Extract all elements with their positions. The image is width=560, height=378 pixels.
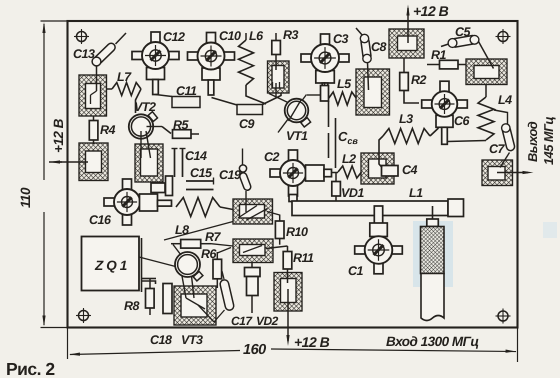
- coax braid: [421, 227, 445, 274]
- pad output / C7: [482, 160, 513, 186]
- pad for R1 / C5 / L4: [466, 59, 507, 85]
- inductor L8: [176, 198, 220, 217]
- wire lower pad diagonals: [243, 246, 262, 253]
- capacitor C5: [441, 44, 450, 47]
- wide pad upper (C19/R10): [233, 199, 273, 224]
- svg-text:C10: C10: [219, 29, 241, 43]
- pad for C4: [361, 153, 394, 184]
- resistor R6: [216, 252, 218, 260]
- corner hole top-left: [77, 32, 87, 42]
- resistor R7: [171, 243, 181, 245]
- svg-text:L3: L3: [399, 112, 413, 126]
- svg-text:160: 160: [243, 342, 266, 358]
- svg-text:110: 110: [18, 187, 33, 208]
- svg-text:L6: L6: [249, 29, 264, 43]
- trimmer capacitor C2: [289, 150, 298, 161]
- trimmer capacitor C12: [151, 32, 160, 43]
- svg-text:R2: R2: [411, 73, 427, 87]
- inductor L2: [338, 166, 362, 178]
- svg-text:С6: С6: [454, 114, 471, 128]
- svg-text:C8: C8: [371, 40, 387, 54]
- svg-text:ZQ1: ZQ1: [94, 258, 130, 273]
- capacitor C11 strip: [156, 95, 173, 97]
- svg-text:Рис. 2: Рис. 2: [6, 359, 55, 378]
- width dimension line 160: [67, 328, 69, 360]
- resistor R10: [267, 212, 280, 216]
- capacitor C8: [356, 28, 363, 36]
- corner hole top-right: [498, 32, 508, 42]
- pad for VT2 emitter: [135, 144, 163, 182]
- capacitor C18 plate: [163, 284, 172, 314]
- transistor VT3: [193, 272, 203, 281]
- inductor L6: [245, 33, 247, 40]
- inductor L7: [107, 88, 113, 90]
- svg-text:VD1: VD1: [341, 186, 364, 200]
- +12V top arrow: [407, 8, 409, 43]
- svg-text:C19: C19: [219, 168, 241, 182]
- wire ZQ1 to VT3: [139, 257, 176, 267]
- coax ferrule: [427, 219, 439, 227]
- svg-text:+12 В: +12 В: [413, 3, 449, 19]
- svg-text:L5: L5: [337, 77, 352, 91]
- svg-text:Вход 1300 МГц: Вход 1300 МГц: [386, 334, 479, 349]
- resistor R4: [93, 116, 95, 121]
- capacitor C15: [186, 180, 214, 182]
- diode VD1: [335, 173, 337, 183]
- transistor VT2: [148, 112, 157, 122]
- coax blue scan tint: [413, 221, 453, 287]
- svg-text:R4: R4: [100, 123, 116, 137]
- svg-text:C3: C3: [333, 32, 349, 46]
- svg-text:C1: C1: [348, 264, 364, 278]
- pad +12V left feed: [79, 143, 108, 181]
- svg-text:C4: C4: [402, 163, 418, 177]
- svg-text:R11: R11: [293, 251, 314, 265]
- svg-text:C2: C2: [264, 150, 280, 164]
- pad for C13 / L7: [79, 75, 107, 116]
- svg-text:C12: C12: [163, 30, 185, 44]
- pad for R3: [268, 61, 290, 93]
- svg-text:L2: L2: [342, 152, 356, 166]
- svg-text:C15: C15: [190, 166, 213, 180]
- svg-text:VD2: VD2: [256, 314, 279, 328]
- transistor VT1: [269, 94, 290, 104]
- svg-text:VT2: VT2: [134, 100, 156, 114]
- inductor L3: [383, 129, 430, 144]
- svg-text:VT3: VT3: [181, 333, 203, 347]
- svg-text:R6: R6: [201, 247, 218, 261]
- svg-text:R10: R10: [286, 225, 308, 239]
- svg-text:R5: R5: [173, 118, 190, 132]
- trimmer capacitor C6: [440, 81, 449, 92]
- C16 output lead: [140, 194, 158, 211]
- coupling capacitor Csv trace 1: [328, 101, 330, 127]
- svg-text:C14: C14: [185, 149, 207, 163]
- inductor L5: [329, 92, 357, 105]
- diode VD2: [251, 263, 253, 269]
- resistor R2: [403, 58, 405, 73]
- C15 lead: [166, 176, 173, 196]
- svg-text:C16: C16: [89, 213, 112, 227]
- output arrow 145 MHz: [497, 172, 528, 174]
- coupling capacitor Csv trace 2: [335, 118, 337, 168]
- trimmer capacitor C1: [374, 206, 382, 224]
- quartz crystal ZQ1: [82, 237, 140, 291]
- wire pad to R11: [266, 246, 288, 249]
- svg-text:+12 В: +12 В: [294, 334, 330, 350]
- svg-text:C11: C11: [176, 84, 197, 98]
- capacitor C19: [242, 149, 244, 166]
- pad for L5 / C8: [356, 69, 390, 115]
- C2 output lead: [306, 165, 325, 181]
- wire C19 pad diagonals: [238, 206, 257, 219]
- capacitor C14: [174, 149, 176, 178]
- inductor L4: [485, 85, 487, 98]
- pad +12V bottom feed: [274, 273, 302, 312]
- svg-text:C9: C9: [239, 117, 255, 131]
- wire L4 to C6 stem: [448, 141, 487, 142]
- svg-text:R1: R1: [431, 48, 447, 62]
- svg-text:C13: C13: [73, 47, 95, 61]
- wire to R7: [164, 222, 233, 241]
- trimmer capacitor C16: [123, 179, 132, 190]
- corner hole bottom-left: [79, 311, 89, 321]
- svg-text:C17: C17: [231, 314, 253, 328]
- svg-text:145 МГц: 145 МГц: [541, 117, 556, 165]
- svg-text:Выход: Выход: [525, 121, 540, 162]
- pcb board outline: [68, 21, 518, 328]
- svg-text:C18: C18: [150, 333, 172, 347]
- wide pad lower (R11): [233, 239, 273, 263]
- capacitor C17: [219, 279, 234, 311]
- pad for C18 / VT3: [174, 286, 216, 325]
- wire VT3 pad diagonals: [186, 298, 205, 309]
- svg-text:C7: C7: [489, 142, 506, 156]
- resistor R5: [173, 130, 192, 139]
- resistor R8: [149, 279, 151, 290]
- resistor R11: [287, 246, 289, 252]
- trimmer capacitor C3: [321, 34, 330, 45]
- resistor R1: [427, 64, 440, 66]
- capacitor C4 chip: [382, 166, 399, 177]
- svg-text:R7: R7: [205, 230, 222, 244]
- svg-text:L7: L7: [117, 70, 132, 84]
- svg-text:VT1: VT1: [286, 129, 308, 143]
- svg-text:+12 В: +12 В: [51, 118, 66, 153]
- microstrip L1: [289, 195, 297, 202]
- +12V left arrow: [60, 161, 88, 163]
- pad +12V top feed: [389, 29, 424, 58]
- capacitor C13: [116, 33, 127, 44]
- wire ZQ1 lead to C18: [142, 281, 156, 284]
- wire L7 to VT2: [136, 89, 142, 113]
- node junction box (C3/L5/Csv): [324, 82, 326, 86]
- capacitor C7: [494, 110, 508, 125]
- corner hole bottom-right: [498, 311, 508, 321]
- height dimension line 110: [41, 20, 68, 22]
- +12V bottom arrow: [287, 289, 289, 341]
- resistor R3: [275, 33, 277, 41]
- svg-text:L1: L1: [409, 186, 423, 200]
- trimmer capacitor C10: [207, 33, 216, 44]
- coax center pin: [432, 206, 434, 220]
- coax sheath: [421, 274, 444, 321]
- svg-text:R3: R3: [283, 28, 299, 42]
- svg-text:L4: L4: [498, 93, 512, 107]
- wire ZQ1 to R8: [142, 278, 157, 280]
- svg-text:C5: C5: [455, 25, 472, 39]
- svg-text:R8: R8: [124, 299, 140, 313]
- capacitor C9 strip: [212, 98, 238, 106]
